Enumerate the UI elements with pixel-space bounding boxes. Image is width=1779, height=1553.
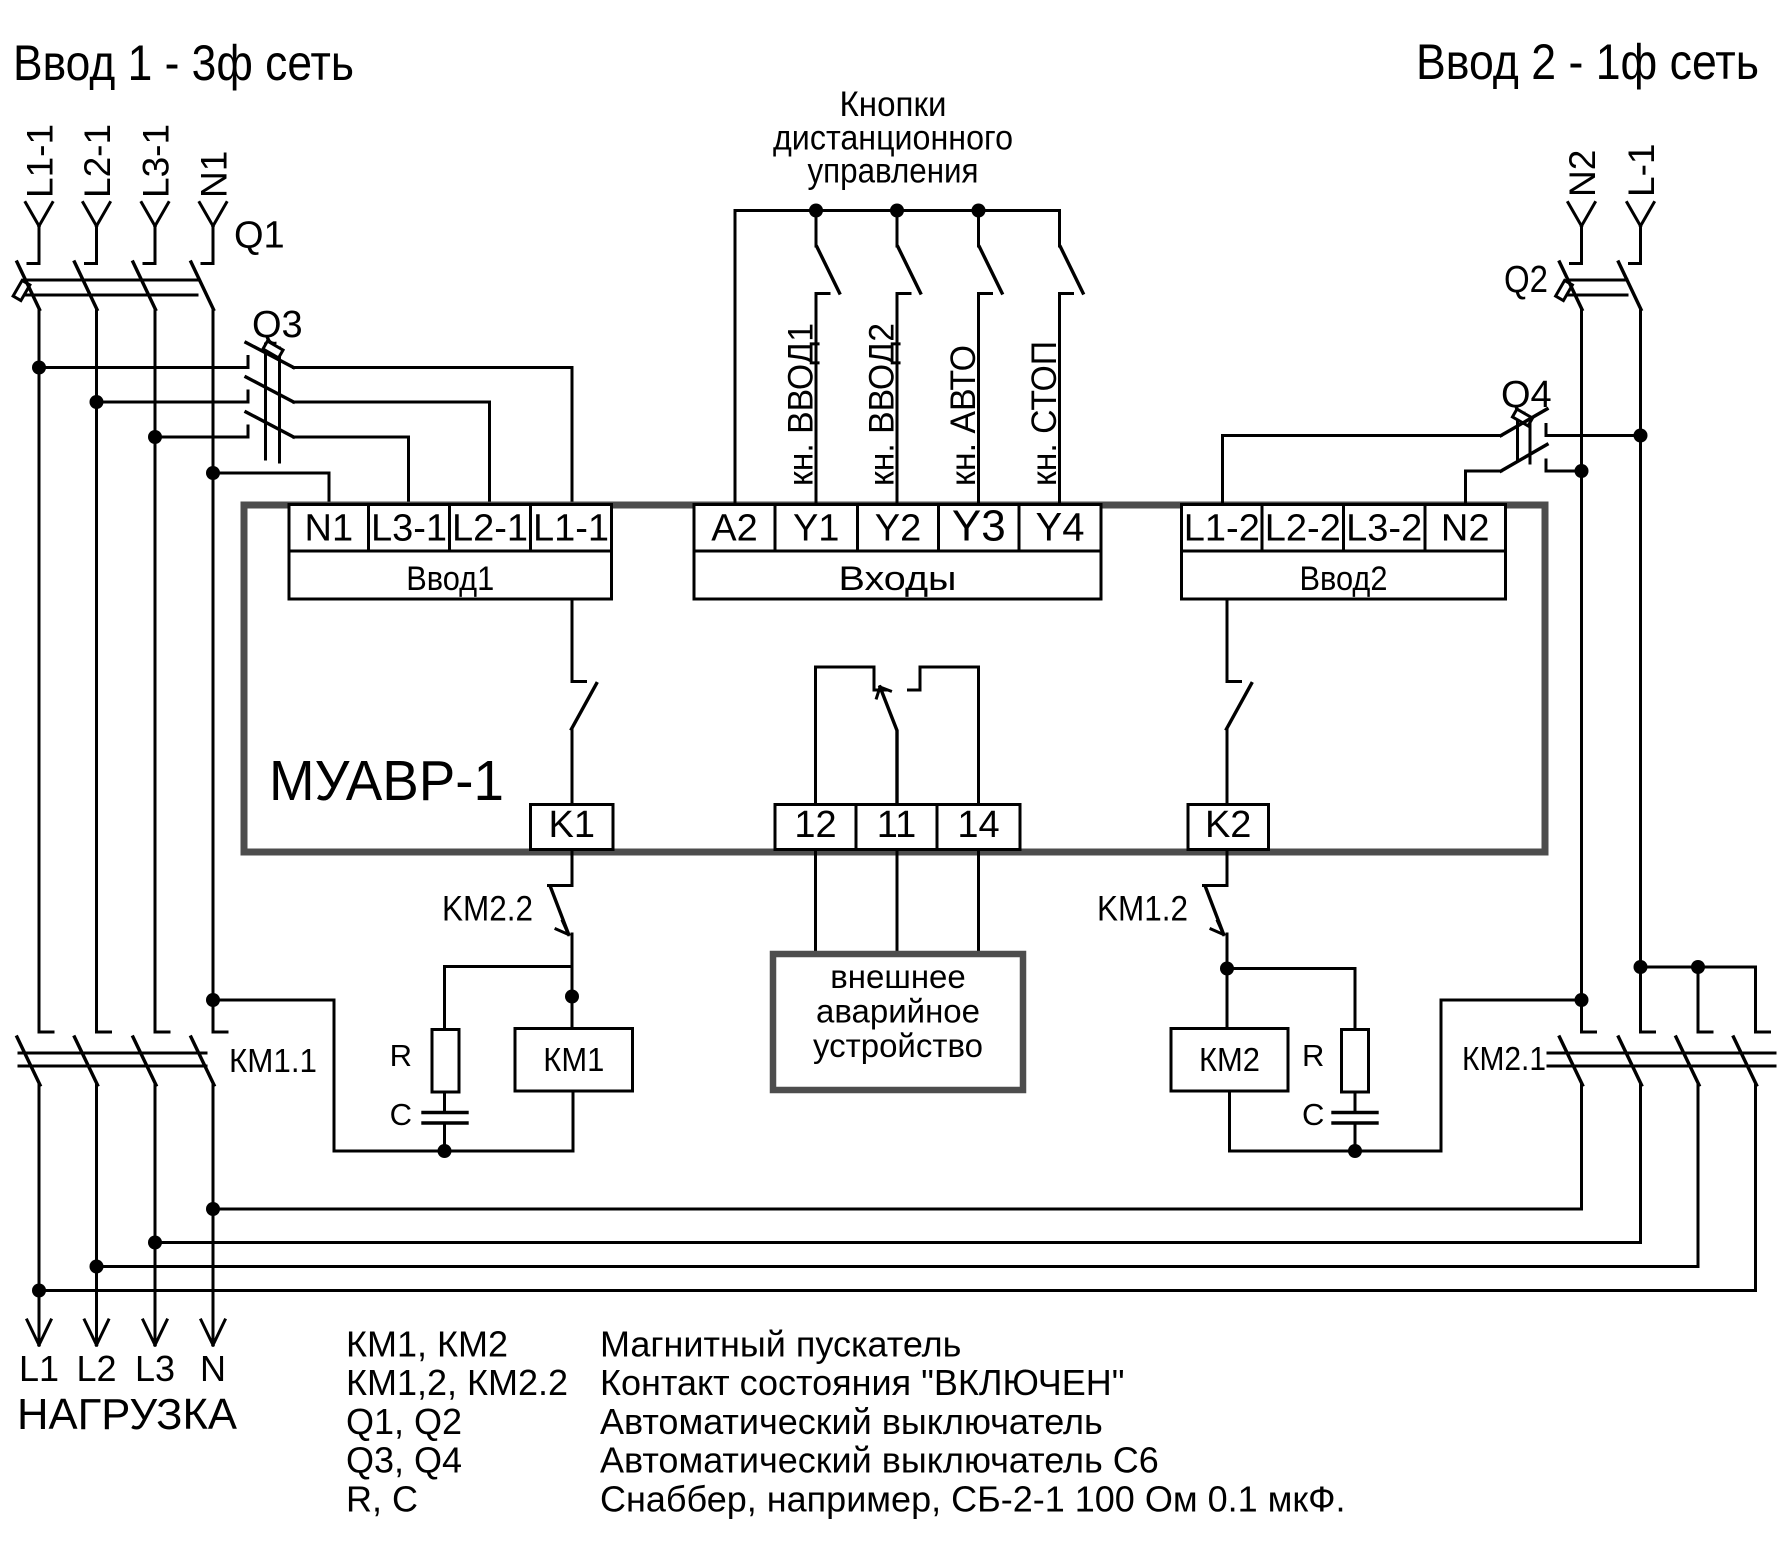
- wire R branch down: [443, 967, 446, 1030]
- pushbutton кн. ВВОД2: blade: [898, 247, 921, 293]
- pushbutton кн. АВТО: lower wire: [977, 294, 980, 505]
- Q2 pole N2: blade: [1560, 262, 1583, 310]
- svg-text:KM1.2: KM1.2: [1097, 890, 1188, 929]
- circuit breaker Q4 linkage bar: [1518, 420, 1531, 463]
- node junction above KM2: [1220, 962, 1234, 976]
- svg-text:N2: N2: [1562, 150, 1603, 197]
- Q3 pole 2: fixed contact tick: [247, 391, 250, 402]
- KM1.1 pole L1: fixed contact tick: [39, 1031, 53, 1034]
- terminal L2-2: [1262, 505, 1344, 552]
- input terminal N2 (arrow fork): [1568, 203, 1595, 264]
- device box МУАВР-1: [244, 505, 1545, 852]
- resistor R (left): [432, 1030, 459, 1093]
- pushbutton кн. СТОП: upper stub: [1058, 211, 1061, 247]
- relay contact K1: blade: [572, 684, 597, 730]
- KM2.1 pole 3: fixed contact tick: [1698, 1031, 1712, 1034]
- wire N1 vertical Q1->KM1.1: [212, 310, 215, 1033]
- circuit breaker Q1 linkage bar: [24, 280, 197, 295]
- svg-text:Y2: Y2: [875, 508, 921, 550]
- Q3 pole 3: fixed contact tick: [247, 426, 250, 437]
- wire L1 tap: [39, 366, 248, 369]
- relay changeover: common blade from 11: [880, 687, 897, 805]
- relay contact K1: upper wire: [571, 599, 574, 682]
- KM1.1 pole L3: blade: [133, 1037, 156, 1085]
- svg-text:Y4: Y4: [1036, 506, 1085, 550]
- Q1 pole L1-1: blade: [17, 262, 40, 310]
- terminal 11: [856, 805, 937, 850]
- node N tap to terminal N1: [206, 466, 220, 480]
- svg-text:Автоматический выключатель С6: Автоматический выключатель С6: [600, 1440, 1159, 1481]
- wire tap to snubber R (right): [1227, 967, 1355, 970]
- Q2 pole L-1: fixed contact tick: [1630, 262, 1641, 265]
- node load line L1: [32, 1284, 46, 1298]
- input terminal L1-1 (arrow fork): [26, 203, 53, 264]
- terminal 14: [937, 805, 1020, 850]
- svg-text:KM2.2: KM2.2: [442, 890, 533, 929]
- contact KM2.2: arrowhead: [556, 921, 569, 935]
- node L3 tap to Q3: [148, 430, 162, 444]
- KM2.1 pole 4: blade: [1734, 1037, 1757, 1085]
- KM2.1 pole 1: output wire: [1580, 1085, 1583, 1209]
- box внешнее аварийное устройство: [773, 954, 1023, 1090]
- wire L1-1 vertical Q1->KM1.1: [38, 310, 41, 1033]
- terminal K2: [1188, 805, 1269, 850]
- svg-text:Снаббер, например, СБ-2-1 100: Снаббер, например, СБ-2-1 100 Ом 0.1 мкФ…: [600, 1478, 1346, 1519]
- wire tap to snubber R: [445, 965, 573, 968]
- svg-text:R: R: [1302, 1038, 1324, 1073]
- KM1.1 pole L2: output wire to load: [95, 1085, 98, 1345]
- KM1.1 pole L1: output wire to load: [38, 1085, 41, 1345]
- svg-text:Ввод1: Ввод1: [406, 560, 494, 598]
- svg-text:L2: L2: [76, 1348, 116, 1389]
- terminal group label Входы: [694, 551, 1101, 599]
- relay contact K2: lower wire: [1226, 729, 1229, 805]
- svg-text:Q3, Q4: Q3, Q4: [346, 1440, 462, 1481]
- Q4 pole 2: blade: [1501, 445, 1547, 472]
- wire N2 riser: [1580, 310, 1583, 1033]
- KM1.1 pole L2: blade: [75, 1037, 98, 1085]
- relay contact K1: lower wire: [571, 729, 574, 805]
- wire KM2 coil bottom: [1228, 1091, 1231, 1151]
- svg-text:K1: K1: [549, 804, 595, 846]
- wire load link L3: [155, 1241, 1641, 1244]
- node jumper at L-1 riser: [1634, 960, 1648, 974]
- terminal L3-2: [1344, 505, 1426, 552]
- terminal N2: [1425, 505, 1506, 552]
- Q3 pole 1: output wire to terminal: [294, 368, 573, 505]
- KM1.1 pole L3: output wire to load: [154, 1085, 157, 1345]
- KM2.1 pole 3: blade: [1676, 1037, 1699, 1085]
- wire load link L2: [97, 1265, 1699, 1268]
- node L1 tap to Q3: [32, 361, 46, 375]
- pushbutton кн. ВВОД2: lower wire: [896, 294, 899, 505]
- KM2.1 pole 2: fixed contact tick: [1641, 1031, 1655, 1034]
- contactor KM1.1 linkage: [19, 1053, 206, 1066]
- svg-text:12: 12: [794, 804, 836, 846]
- KM2.1 pole 2: blade: [1619, 1037, 1642, 1085]
- wire load link N: [213, 1208, 1582, 1211]
- wire C to bottom bus (right): [1354, 1125, 1357, 1152]
- terminal L3-1: [369, 505, 450, 552]
- capacitor C (left): [423, 1113, 467, 1124]
- svg-text:L3-1: L3-1: [371, 508, 447, 550]
- svg-text:устройство: устройство: [813, 1027, 983, 1064]
- svg-text:N2: N2: [1441, 508, 1490, 550]
- wire terminal L1-2 to Q4: [1223, 436, 1502, 505]
- svg-text:L2-1: L2-1: [77, 124, 118, 198]
- KM1.1 pole L1: blade: [17, 1037, 40, 1085]
- contactor coil KM1: [515, 1029, 633, 1092]
- relay contact K1: tick: [572, 680, 586, 683]
- load arrow L3: [143, 1320, 167, 1345]
- contact KM2.2: upper wire: [571, 850, 574, 886]
- svg-text:КМ1, КМ2: КМ1, КМ2: [346, 1324, 508, 1365]
- svg-text:L3: L3: [135, 1348, 175, 1389]
- svg-text:Ввод2: Ввод2: [1300, 560, 1388, 598]
- svg-text:L1-1: L1-1: [20, 124, 61, 198]
- svg-text:управления: управления: [808, 151, 979, 191]
- KM2.1 pole 4: fixed contact tick: [1756, 1031, 1770, 1034]
- wire R branch down (right): [1354, 969, 1357, 1030]
- KM1.1 pole N: output wire to load: [212, 1085, 215, 1345]
- svg-text:кн. ВВОД1: кн. ВВОД1: [781, 323, 821, 486]
- node Q4 to L-1 riser: [1634, 429, 1648, 443]
- node load line L2: [90, 1260, 104, 1274]
- Q3 pole 1: fixed contact tick: [247, 357, 250, 368]
- terminal K1: [531, 805, 614, 850]
- KM2.1 pole 1: fixed contact tick: [1582, 1031, 1596, 1034]
- node N2 feed to KM2 coil: [1575, 993, 1589, 1007]
- KM2.1 pole 1: blade: [1560, 1037, 1583, 1085]
- resistor R (right): [1342, 1030, 1369, 1093]
- wire L3 tap: [155, 436, 248, 439]
- KM2.1 pole 3: output wire: [1697, 1085, 1700, 1267]
- contact KM2.2: tick: [549, 884, 573, 887]
- circuit breaker Q3 linkage bar: [266, 344, 280, 462]
- input terminal L3-1 (arrow fork): [142, 203, 169, 264]
- wire L3-1 vertical Q1->KM1.1: [154, 310, 157, 1033]
- Q3 pole 3: output wire to terminal: [294, 437, 409, 504]
- pushbutton кн. АВТО: lower contact tick: [979, 292, 992, 295]
- wire KM1.2 to KM2 coil: [1226, 934, 1229, 1029]
- svg-text:L2-1: L2-1: [452, 508, 528, 550]
- KM1.1 pole L2: fixed contact tick: [97, 1031, 111, 1034]
- terminal L2-1: [450, 505, 531, 552]
- relay changeover: NC branch from 12: [816, 667, 887, 805]
- load arrow L2: [85, 1320, 109, 1345]
- svg-text:кн. СТОП: кн. СТОП: [1024, 341, 1064, 486]
- svg-text:кн. АВТО: кн. АВТО: [943, 345, 983, 486]
- wire KM2.1 phase jumper: [1641, 967, 1756, 1032]
- Q4 pole 2: tick: [1545, 460, 1548, 471]
- contactor coil KM2: [1171, 1029, 1288, 1092]
- svg-text:кн. ВВОД2: кн. ВВОД2: [862, 323, 902, 486]
- wire L2-1 vertical Q1->KM1.1: [95, 310, 98, 1033]
- terminal group label Ввод2: [1182, 551, 1506, 599]
- svg-text:Ввод 1 - 3ф сеть: Ввод 1 - 3ф сеть: [13, 35, 354, 91]
- node jumper to pole 3: [1691, 960, 1705, 974]
- wire C to bottom bus: [443, 1125, 446, 1152]
- terminal group label Ввод1: [289, 551, 612, 599]
- svg-text:внешнее: внешнее: [830, 958, 966, 995]
- terminal L1-1: [531, 505, 612, 552]
- svg-text:A2: A2: [711, 508, 757, 550]
- svg-text:КМ1,2, КМ2.2: КМ1,2, КМ2.2: [346, 1362, 568, 1403]
- relay changeover: NO branch from 14: [909, 667, 979, 805]
- terminal L1-2: [1182, 505, 1263, 552]
- svg-text:Входы: Входы: [839, 560, 957, 598]
- Q4 pole 1: output wire: [1546, 434, 1641, 437]
- wire L-1 riser: [1639, 310, 1642, 1033]
- contact KM1.2: arrowhead: [1211, 921, 1224, 935]
- terminal N1: [289, 505, 369, 552]
- svg-text:КМ1: КМ1: [543, 1041, 604, 1078]
- Q4 pole 2: output wire: [1546, 470, 1582, 473]
- wire R to C (right): [1354, 1092, 1357, 1111]
- svg-text:Q2: Q2: [1504, 259, 1548, 301]
- Q1 pole L2-1: blade: [75, 262, 98, 310]
- svg-text:НАГРУЗКА: НАГРУЗКА: [17, 1390, 238, 1439]
- wire KM1 circuit bottom bus: [334, 1150, 573, 1153]
- input terminal L2-1 (arrow fork): [83, 203, 110, 264]
- node junction above KM1: [565, 990, 579, 1004]
- svg-text:Y1: Y1: [793, 508, 839, 550]
- terminal Y1: [775, 505, 858, 552]
- wire N to terminal N1: [213, 473, 329, 504]
- svg-text:L1-2: L1-2: [1184, 508, 1260, 550]
- pushbutton кн. ВВОД1: blade: [817, 247, 840, 293]
- svg-text:Q3: Q3: [252, 304, 303, 346]
- svg-text:Ввод 2 - 1ф сеть: Ввод 2 - 1ф сеть: [1416, 34, 1759, 90]
- Q3 pole 2: blade: [246, 377, 294, 402]
- wire KM1 coil bottom: [572, 1091, 575, 1151]
- node C to bus (right): [1348, 1144, 1362, 1158]
- KM2.1 pole 4: output wire: [1754, 1085, 1757, 1291]
- terminal 12: [775, 805, 856, 850]
- svg-text:аварийное: аварийное: [816, 993, 980, 1030]
- svg-text:L1-1: L1-1: [533, 508, 609, 550]
- Q4 pole 1: blade: [1501, 409, 1547, 436]
- contact KM2.2: blade: [551, 887, 569, 934]
- Q4 pole 1: tick: [1545, 425, 1548, 436]
- terminal Y3: [939, 505, 1020, 552]
- Q3 pole 2: output wire to terminal: [294, 402, 490, 504]
- contact KM1.2: upper wire: [1226, 850, 1229, 886]
- capacitor C (right): [1333, 1113, 1377, 1124]
- Q2 pole N2: fixed contact tick: [1571, 262, 1582, 265]
- KM2.1 pole 2: output wire: [1639, 1085, 1642, 1243]
- Q1 pole L1-1: fixed contact tick: [28, 262, 39, 265]
- svg-text:N1: N1: [305, 508, 354, 550]
- circuit breaker Q2 linkage bar: [1567, 280, 1627, 295]
- svg-text:11: 11: [877, 804, 916, 846]
- wire R to C: [443, 1092, 446, 1111]
- svg-text:Q1: Q1: [234, 215, 285, 257]
- wire load link L1: [39, 1289, 1756, 1292]
- relay contact K2: blade: [1227, 684, 1252, 730]
- pushbutton кн. СТОП: blade: [1061, 247, 1084, 293]
- svg-text:Y3: Y3: [952, 502, 1006, 551]
- wire KM2.2 to KM1 coil: [571, 934, 574, 1029]
- wire 14 to external device: [977, 850, 980, 955]
- svg-text:Магнитный пускатель: Магнитный пускатель: [600, 1324, 961, 1365]
- pushbutton кн. ВВОД1: upper stub: [815, 211, 818, 247]
- Q1 pole N1: fixed contact tick: [202, 262, 213, 265]
- wire L2 tap: [97, 401, 249, 404]
- svg-text:14: 14: [957, 804, 999, 846]
- node load line N: [206, 1202, 220, 1216]
- KM1.1 pole L3: fixed contact tick: [155, 1031, 169, 1034]
- wire: buttons bus: [735, 209, 1060, 212]
- KM1.1 pole N: blade: [191, 1037, 214, 1085]
- node N feed to KM1 coil: [206, 993, 220, 1007]
- relay contact K2: tick: [1227, 680, 1241, 683]
- wire 11 to external device: [896, 850, 899, 955]
- pushbutton кн. ВВОД1: lower contact tick: [816, 292, 829, 295]
- terminal Y4: [1019, 505, 1101, 552]
- input terminal L-1 (arrow fork): [1627, 203, 1654, 264]
- terminal Y2: [858, 505, 939, 552]
- svg-text:C: C: [390, 1097, 412, 1132]
- svg-text:R, C: R, C: [346, 1478, 418, 1519]
- contact KM1.2: tick: [1204, 884, 1228, 887]
- node bus junction кн. ВВОД2: [890, 204, 904, 218]
- pushbutton кн. СТОП: lower contact tick: [1060, 292, 1073, 295]
- node load line L3: [148, 1236, 162, 1250]
- pushbutton кн. ВВОД2: lower contact tick: [897, 292, 910, 295]
- terminal A2: [694, 505, 775, 552]
- svg-text:C: C: [1302, 1097, 1324, 1132]
- svg-text:K2: K2: [1205, 804, 1251, 846]
- wire 12 to external device: [814, 850, 817, 955]
- wire A2: [734, 211, 737, 505]
- relay contact K2: upper wire: [1226, 599, 1229, 682]
- contact KM1.2: blade: [1206, 887, 1224, 934]
- svg-text:L-1: L-1: [1621, 144, 1662, 197]
- svg-text:КМ2.1: КМ2.1: [1462, 1040, 1546, 1077]
- svg-text:L1: L1: [19, 1348, 59, 1389]
- svg-text:N: N: [200, 1348, 226, 1389]
- input terminal N1 (arrow fork): [200, 203, 227, 264]
- svg-text:Q1, Q2: Q1, Q2: [346, 1401, 462, 1442]
- pushbutton кн. АВТО: blade: [980, 247, 1003, 293]
- contactor KM2.1 linkage: [1548, 1053, 1775, 1066]
- svg-text:R: R: [390, 1038, 412, 1073]
- svg-text:N1: N1: [194, 151, 235, 198]
- wire KM2 circuit bottom bus: [1230, 1000, 1582, 1151]
- wire N feed to KM1 circuit: [213, 1000, 334, 1151]
- node bus junction кн. ВВОД1: [809, 204, 823, 218]
- Q1 pole L2-1: fixed contact tick: [86, 262, 97, 265]
- svg-text:КМ1.1: КМ1.1: [229, 1042, 317, 1079]
- pushbutton кн. АВТО: upper stub: [977, 211, 980, 247]
- pushbutton кн. ВВОД1: lower wire: [815, 294, 818, 505]
- Q2 pole L-1: blade: [1619, 262, 1642, 310]
- pushbutton кн. ВВОД2: upper stub: [896, 211, 899, 247]
- wire terminal N2 to Q4: [1466, 471, 1502, 504]
- node C to bus: [438, 1144, 452, 1158]
- svg-text:Автоматический выключатель: Автоматический выключатель: [600, 1401, 1103, 1442]
- svg-text:L3-2: L3-2: [1346, 508, 1422, 550]
- svg-text:L3-1: L3-1: [136, 124, 177, 198]
- Q1 pole N1: blade: [191, 262, 214, 310]
- node bus junction кн. АВТО: [972, 204, 986, 218]
- svg-text:L2-2: L2-2: [1265, 508, 1341, 550]
- load arrow N: [201, 1320, 225, 1345]
- node L2 tap to Q3: [90, 395, 104, 409]
- wire KM2.1 pole 3 feed: [1697, 967, 1700, 1032]
- Q1 pole L3-1: fixed contact tick: [144, 262, 155, 265]
- KM1.1 pole N: fixed contact tick: [213, 1031, 227, 1034]
- Q1 pole L3-1: blade: [133, 262, 156, 310]
- svg-text:МУАВР-1: МУАВР-1: [269, 749, 504, 813]
- Q3 pole 3: blade: [246, 412, 294, 437]
- node Q4 to N2 riser: [1575, 464, 1589, 478]
- svg-text:КМ2: КМ2: [1199, 1041, 1260, 1078]
- pushbutton кн. СТОП: lower wire: [1058, 294, 1061, 505]
- load arrow L1: [27, 1320, 51, 1345]
- Q3 pole 1: blade: [246, 343, 294, 368]
- svg-text:Контакт состояния "ВКЛЮЧЕН": Контакт состояния "ВКЛЮЧЕН": [600, 1362, 1124, 1403]
